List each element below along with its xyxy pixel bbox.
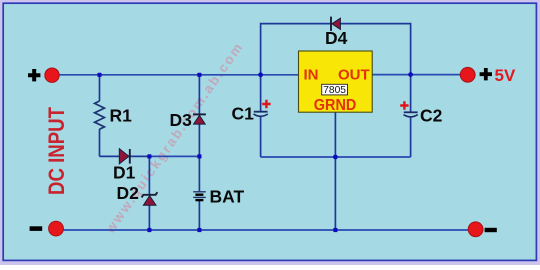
node junction on rail at D3 [197, 73, 201, 77]
terminal: DC input negative (red circle) [49, 221, 64, 236]
diode D1 (points right) [119, 149, 130, 164]
battery BAT symbol [193, 192, 206, 200]
svg-text:C1: C1 [232, 104, 255, 124]
node junction on rail at C1/D4 [258, 72, 263, 77]
svg-text:BAT: BAT [210, 187, 245, 207]
wire: D2 branch vertical [148, 156, 150, 230]
capacitor C2 (polarized) [404, 112, 418, 117]
terminal: +5V output (red circle) [460, 67, 475, 82]
wire: top positive rail from input terminal to 7805 IN pin [59, 74, 299, 76]
node junction bottom rail at GRND [333, 228, 337, 232]
svg-text:5V: 5V [495, 66, 516, 85]
wire: D4 bypass loop [261, 24, 411, 75]
svg-text:IN: IN [304, 67, 319, 84]
node junction bottom rail at D2 [147, 228, 151, 232]
terminal: DC input positive (red circle) [45, 68, 59, 82]
wire: junction D1 cathode to D3 anode node [149, 155, 199, 157]
terminal: output negative (red circle) [468, 222, 483, 237]
wire: ground bus C1 to C2 [261, 156, 411, 158]
diode D3 (points up, bar on top) [193, 114, 206, 124]
plus sign at DC input positive [28, 69, 40, 81]
svg-text:D2: D2 [117, 183, 140, 203]
svg-text:OUT: OUT [338, 67, 370, 84]
diode D4 (points left, bar on left) [331, 17, 340, 31]
wire: R1 branch vertical [99, 75, 101, 157]
minus sign at DC input negative [30, 226, 43, 231]
node junction on rail at R1 [97, 73, 101, 77]
wire: D3 branch vertical [198, 75, 200, 157]
resistor R1 zigzag [95, 101, 105, 129]
svg-text:GRND: GRND [314, 97, 357, 114]
svg-text:D1: D1 [113, 163, 136, 183]
wire: C1 vertical branch [260, 75, 262, 157]
svg-text:DC INPUT: DC INPUT [44, 107, 69, 195]
svg-text:D3: D3 [170, 110, 193, 130]
minus sign at output negative [485, 228, 497, 232]
wire: BAT branch vertical [198, 156, 200, 230]
wire: 7805 GRND pin down to ground bus and bottom rail [334, 112, 336, 230]
diode D2 zener (points up, bar on top) [142, 192, 158, 205]
node junction D3-BAT [197, 154, 201, 158]
svg-text:D4: D4 [325, 28, 348, 48]
svg-text:R1: R1 [110, 106, 133, 126]
node junction bottom rail at BAT [197, 228, 201, 232]
plus sign at C2 [400, 101, 408, 109]
plus sign at +5V output [480, 68, 492, 80]
svg-text:7805: 7805 [323, 85, 346, 96]
node junction ground bus at GRND pin [333, 155, 338, 160]
svg-text:C2: C2 [420, 106, 443, 126]
plus sign at C1 [262, 100, 270, 108]
wire: D1 horizontal leads [100, 155, 150, 157]
value box 7805 [322, 84, 348, 95]
wire: C2 vertical branch [410, 75, 412, 157]
op-amp / regulator U1 7805 body [299, 51, 373, 112]
node junction OUT wire at C2/D4 [408, 72, 413, 77]
wire: OUT pin to +5V terminal [372, 74, 460, 76]
capacitor C1 (polarized) [254, 112, 268, 117]
wire: bottom negative rail [64, 229, 469, 231]
node junction D1-D2 [147, 154, 151, 158]
